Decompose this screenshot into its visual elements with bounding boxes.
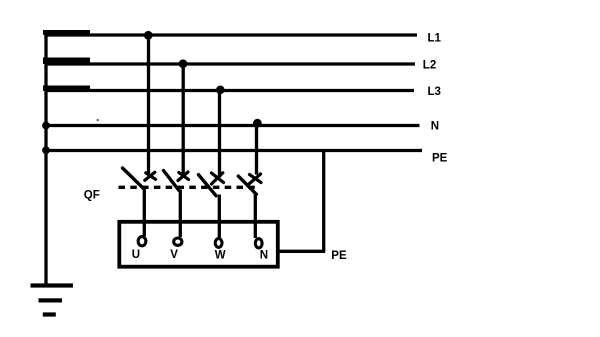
- svg-text:L2: L2: [423, 60, 436, 72]
- svg-text:PE: PE: [432, 153, 448, 165]
- svg-text:U: U: [132, 249, 140, 261]
- svg-text:N: N: [431, 121, 439, 133]
- svg-text:V: V: [170, 249, 178, 261]
- svg-text:L3: L3: [428, 86, 441, 98]
- svg-text:L1: L1: [428, 33, 442, 45]
- svg-text:PE: PE: [331, 250, 347, 262]
- svg-text:W: W: [215, 250, 226, 262]
- svg-text:N: N: [260, 250, 268, 262]
- svg-text:QF: QF: [84, 190, 100, 202]
